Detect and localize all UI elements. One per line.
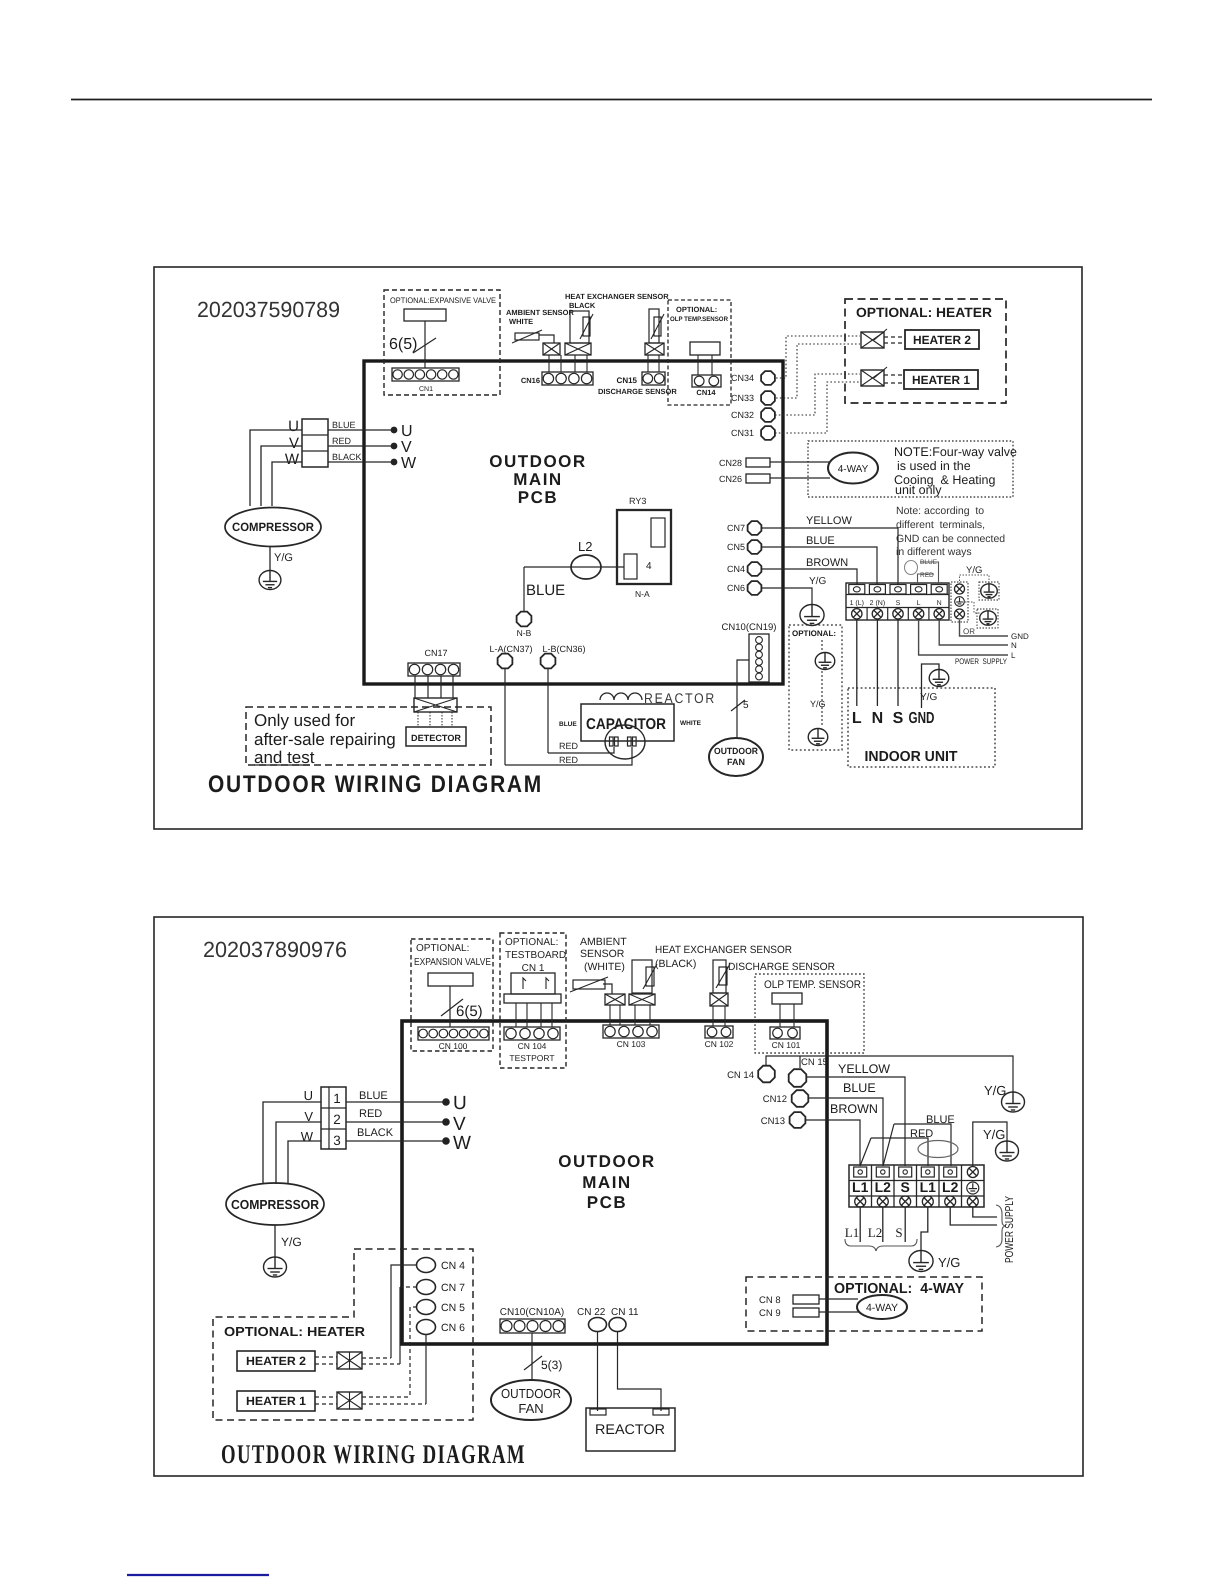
- svg-text:EXPANSION VALVE: EXPANSION VALVE: [414, 957, 491, 968]
- svg-text:CN 4: CN 4: [441, 1260, 465, 1272]
- svg-text:CN6: CN6: [727, 583, 745, 593]
- svg-text:U: U: [304, 1088, 313, 1103]
- svg-text:(BLACK): (BLACK): [655, 958, 696, 970]
- svg-text:unit only: unit only: [895, 483, 942, 497]
- svg-text:HEAT EXCHANGER SENSOR: HEAT EXCHANGER SENSOR: [655, 944, 792, 956]
- svg-text:CN 7: CN 7: [441, 1282, 465, 1294]
- svg-text:(WHITE): (WHITE): [584, 961, 625, 973]
- svg-text:and test: and test: [254, 748, 315, 767]
- svg-text:CN 6: CN 6: [441, 1322, 465, 1334]
- svg-text:4: 4: [646, 561, 652, 572]
- svg-text:CN4: CN4: [727, 564, 745, 574]
- svg-text:N: N: [937, 600, 942, 607]
- svg-text:CN26: CN26: [719, 474, 742, 484]
- svg-text:L2: L2: [942, 1179, 959, 1195]
- svg-text:PCB: PCB: [518, 488, 558, 507]
- svg-text:CN 101: CN 101: [772, 1040, 801, 1050]
- svg-text:GND: GND: [1011, 632, 1029, 641]
- svg-text:HEATER 2: HEATER 2: [246, 1354, 306, 1368]
- svg-text:POWER SUPPLY: POWER SUPPLY: [955, 657, 1008, 666]
- svg-text:WHITE: WHITE: [680, 720, 702, 727]
- svg-text:OUTDOOR WIRING DIAGRAM: OUTDOOR WIRING DIAGRAM: [208, 771, 543, 798]
- svg-text:3: 3: [333, 1133, 341, 1148]
- svg-text:4-WAY: 4-WAY: [866, 1302, 898, 1314]
- svg-text:Y/G: Y/G: [920, 692, 937, 703]
- svg-text:Y/G: Y/G: [984, 1083, 1006, 1098]
- svg-text:DISCHARGE SENSOR: DISCHARGE SENSOR: [728, 961, 835, 973]
- svg-text:COMPRESSOR: COMPRESSOR: [231, 1197, 320, 1212]
- svg-text:N-B: N-B: [517, 628, 532, 638]
- svg-text:W: W: [285, 451, 300, 468]
- svg-text:CN 102: CN 102: [705, 1039, 734, 1049]
- svg-text:BLACK: BLACK: [357, 1127, 394, 1139]
- svg-text:CN 103: CN 103: [617, 1039, 646, 1049]
- svg-text:BLACK: BLACK: [569, 301, 596, 310]
- svg-text:CN 5: CN 5: [441, 1302, 465, 1314]
- svg-text:MAIN: MAIN: [582, 1173, 631, 1192]
- svg-text:CN31: CN31: [731, 428, 754, 438]
- svg-text:RED: RED: [559, 741, 579, 751]
- svg-text:BLUE: BLUE: [526, 582, 565, 599]
- svg-text:Y/G: Y/G: [983, 1127, 1005, 1142]
- svg-text:W: W: [453, 1133, 471, 1154]
- svg-text:202037590789: 202037590789: [197, 297, 340, 322]
- svg-text:V: V: [401, 439, 412, 456]
- svg-text:S: S: [895, 1225, 902, 1240]
- svg-text:POWER SUPPLY: POWER SUPPLY: [1004, 1196, 1016, 1263]
- svg-text:RED: RED: [920, 572, 934, 579]
- svg-text:S: S: [896, 600, 901, 607]
- svg-text:1 (L): 1 (L): [850, 599, 864, 607]
- svg-text:OUTDOOR: OUTDOOR: [558, 1152, 655, 1171]
- svg-text:L2: L2: [875, 1179, 892, 1195]
- svg-text:N: N: [872, 710, 884, 727]
- svg-text:S: S: [901, 1179, 910, 1195]
- svg-text:5(3): 5(3): [541, 1358, 562, 1372]
- svg-text:CN10(CN19): CN10(CN19): [722, 622, 777, 633]
- svg-text:OPTIONAL:EXPANSIVE VALVE: OPTIONAL:EXPANSIVE VALVE: [390, 296, 496, 305]
- svg-text:Y/G: Y/G: [938, 1255, 960, 1270]
- svg-text:L-A(CN37): L-A(CN37): [489, 644, 532, 654]
- svg-text:CN7: CN7: [727, 523, 745, 533]
- svg-text:is used in the: is used in the: [897, 459, 971, 473]
- svg-text:RED: RED: [559, 755, 579, 765]
- svg-text:PCB: PCB: [587, 1193, 627, 1212]
- svg-text:YELLOW: YELLOW: [838, 1062, 890, 1076]
- svg-text:W: W: [401, 455, 417, 472]
- svg-text:OUTDOOR WIRING DIAGRAM: OUTDOOR WIRING DIAGRAM: [221, 1439, 526, 1469]
- svg-text:5: 5: [743, 700, 749, 711]
- svg-text:Note: according to: Note: according to: [896, 505, 984, 517]
- svg-text:REACTOR: REACTOR: [595, 1421, 665, 1437]
- svg-text:BLUE: BLUE: [559, 721, 577, 728]
- svg-text:6(5): 6(5): [389, 336, 417, 353]
- svg-text:BROWN: BROWN: [830, 1102, 878, 1116]
- svg-text:OPTIONAL:: OPTIONAL:: [505, 937, 558, 948]
- svg-text:OPTIONAL: HEATER: OPTIONAL: HEATER: [224, 1324, 366, 1339]
- svg-text:N-A: N-A: [635, 589, 650, 599]
- svg-text:BLUE: BLUE: [806, 535, 835, 547]
- svg-text:L: L: [1011, 651, 1016, 660]
- svg-text:CN 104: CN 104: [518, 1041, 547, 1051]
- svg-text:GND can be connected: GND can be connected: [896, 533, 1005, 545]
- svg-text:CN13: CN13: [761, 1116, 785, 1127]
- svg-text:202037890976: 202037890976: [203, 937, 347, 962]
- svg-text:AMBIENT: AMBIENT: [580, 936, 627, 948]
- svg-text:U: U: [401, 423, 413, 440]
- svg-text:CN17: CN17: [424, 648, 447, 658]
- svg-text:after-sale repairing: after-sale repairing: [254, 730, 396, 749]
- svg-text:RED: RED: [359, 1108, 382, 1120]
- svg-text:2: 2: [333, 1112, 341, 1127]
- svg-text:DISCHARGE SENSOR: DISCHARGE SENSOR: [598, 387, 677, 396]
- svg-text:CN34: CN34: [731, 373, 754, 383]
- svg-text:CN 9: CN 9: [759, 1308, 781, 1319]
- svg-text:U: U: [288, 418, 299, 435]
- svg-text:different terminals,: different terminals,: [896, 519, 985, 531]
- svg-text:DETECTOR: DETECTOR: [411, 733, 462, 743]
- svg-text:CN 11: CN 11: [611, 1307, 639, 1318]
- svg-text:CN28: CN28: [719, 458, 742, 468]
- svg-text:CN5: CN5: [727, 542, 745, 552]
- svg-text:V: V: [289, 435, 299, 452]
- svg-text:RY3: RY3: [629, 496, 646, 506]
- svg-text:COMPRESSOR: COMPRESSOR: [232, 520, 314, 534]
- svg-text:AMBIENT SENSOR: AMBIENT SENSOR: [506, 308, 575, 317]
- svg-text:NOTE:Four-way valve: NOTE:Four-way valve: [894, 445, 1017, 459]
- svg-text:L1: L1: [852, 1179, 869, 1195]
- svg-text:TESTBOARD: TESTBOARD: [505, 950, 566, 961]
- svg-text:OPTIONAL: HEATER: OPTIONAL: HEATER: [856, 305, 992, 320]
- svg-text:INDOOR UNIT: INDOOR UNIT: [865, 749, 958, 765]
- svg-text:OPTIONAL: 4-WAY: OPTIONAL: 4-WAY: [834, 1281, 964, 1297]
- svg-text:CN12: CN12: [763, 1094, 787, 1105]
- svg-text:in different ways: in different ways: [896, 546, 972, 558]
- svg-text:CN 15: CN 15: [801, 1057, 828, 1068]
- svg-text:S: S: [893, 710, 904, 727]
- svg-text:1: 1: [333, 1091, 341, 1106]
- svg-text:2 (N): 2 (N): [870, 599, 886, 607]
- svg-text:HEAT EXCHANGER SENSOR: HEAT EXCHANGER SENSOR: [565, 292, 669, 301]
- svg-text:HEATER 2: HEATER 2: [913, 333, 971, 347]
- svg-text:Y/G: Y/G: [809, 576, 826, 587]
- svg-text:CN1: CN1: [419, 386, 433, 393]
- svg-text:OPTIONAL:: OPTIONAL:: [416, 943, 469, 954]
- svg-text:HEATER 1: HEATER 1: [246, 1394, 306, 1408]
- svg-text:BLUE: BLUE: [359, 1090, 388, 1102]
- svg-text:6(5): 6(5): [456, 1003, 483, 1020]
- svg-text:Y/G: Y/G: [810, 699, 826, 709]
- svg-text:L-B(CN36): L-B(CN36): [542, 644, 585, 654]
- svg-text:Only used for: Only used for: [254, 711, 355, 730]
- svg-text:OPTIONAL:: OPTIONAL:: [792, 629, 836, 638]
- svg-text:BROWN: BROWN: [806, 557, 848, 569]
- svg-text:OPTIONAL:: OPTIONAL:: [676, 305, 717, 314]
- svg-text:L2: L2: [868, 1225, 882, 1240]
- svg-text:OUTDOOR: OUTDOOR: [714, 746, 758, 756]
- svg-text:CN33: CN33: [731, 393, 754, 403]
- svg-text:V: V: [453, 1114, 466, 1135]
- svg-text:OLP TEMP.SENSOR: OLP TEMP.SENSOR: [670, 316, 728, 323]
- svg-text:N: N: [1011, 641, 1017, 650]
- svg-text:CN 1: CN 1: [522, 963, 545, 974]
- svg-text:L1: L1: [920, 1179, 937, 1195]
- svg-text:TESTPORT: TESTPORT: [509, 1053, 554, 1063]
- svg-text:MAIN: MAIN: [513, 470, 562, 489]
- svg-text:Y/G: Y/G: [274, 552, 293, 564]
- svg-text:CN15: CN15: [617, 376, 638, 385]
- svg-text:OUTDOOR: OUTDOOR: [501, 1386, 561, 1401]
- svg-text:Y/G: Y/G: [281, 1235, 302, 1249]
- svg-text:BLUE: BLUE: [843, 1081, 876, 1095]
- svg-text:4-WAY: 4-WAY: [838, 464, 869, 475]
- svg-text:GND: GND: [909, 710, 935, 727]
- svg-text:YELLOW: YELLOW: [806, 515, 852, 527]
- svg-text:W: W: [301, 1129, 314, 1144]
- svg-text:L2: L2: [578, 539, 592, 554]
- svg-text:FAN: FAN: [518, 1401, 543, 1416]
- svg-text:U: U: [453, 1093, 467, 1114]
- svg-text:Y/G: Y/G: [966, 565, 982, 576]
- svg-text:CN14: CN14: [696, 388, 716, 397]
- svg-text:FAN: FAN: [727, 757, 745, 767]
- svg-text:OR: OR: [963, 627, 975, 636]
- svg-text:WHITE: WHITE: [509, 317, 533, 326]
- svg-text:L: L: [852, 710, 862, 727]
- svg-text:CN10(CN10A): CN10(CN10A): [500, 1307, 564, 1318]
- svg-text:OLP TEMP. SENSOR: OLP TEMP. SENSOR: [764, 979, 861, 991]
- svg-text:BLACK: BLACK: [332, 452, 362, 462]
- svg-text:OUTDOOR: OUTDOOR: [489, 452, 586, 471]
- svg-text:BLUE: BLUE: [332, 420, 356, 430]
- svg-text:SENSOR: SENSOR: [580, 948, 625, 960]
- svg-text:CN 14: CN 14: [727, 1070, 754, 1081]
- svg-text:L1: L1: [845, 1225, 859, 1240]
- svg-text:CN16: CN16: [521, 376, 540, 385]
- svg-text:CN 8: CN 8: [759, 1295, 781, 1306]
- svg-text:L: L: [917, 600, 921, 607]
- svg-text:CN 22: CN 22: [577, 1307, 606, 1318]
- svg-text:CN 100: CN 100: [439, 1041, 468, 1051]
- svg-text:RED: RED: [332, 436, 352, 446]
- svg-text:CN32: CN32: [731, 410, 754, 420]
- svg-text:HEATER 1: HEATER 1: [912, 373, 970, 387]
